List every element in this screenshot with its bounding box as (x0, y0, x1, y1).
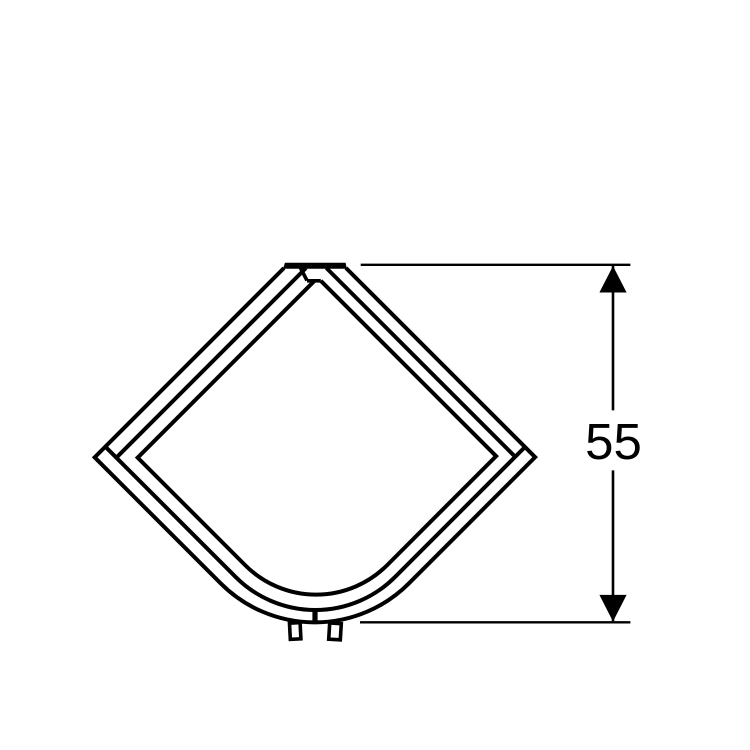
inner basin outline (138, 281, 497, 595)
top extension line (361, 264, 631, 266)
dimension line (lower part) (612, 470, 615, 621)
middle outline: lower rim (attaches to outer line at both ends) (105, 447, 525, 610)
seam connector from bar to inner flat (301, 268, 308, 281)
inner flat top edge (307, 279, 321, 283)
middle outline: upper-right segment (326, 268, 515, 457)
middle outline: upper-left segment (116, 268, 306, 458)
outer outline (diamond with rounded bottom corner) (95, 268, 536, 622)
dimension line (upper part) (612, 266, 615, 410)
bottom center seam tick (312, 609, 317, 622)
top mounting bar (filled) (284, 263, 346, 268)
top arrowhead (599, 266, 626, 293)
bottom extension line (360, 621, 630, 623)
left foot (289, 623, 300, 640)
svg-text:55: 55 (585, 413, 642, 470)
bottom arrowhead (599, 595, 626, 622)
right foot (329, 623, 342, 640)
